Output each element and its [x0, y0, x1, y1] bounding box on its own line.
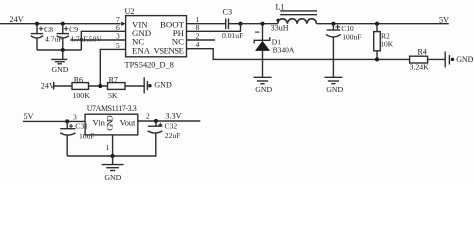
svg-text:GND: GND: [154, 81, 172, 90]
ground GND (D1): [254, 77, 273, 94]
regulator U7 AMS1117-3.3 box: [85, 104, 138, 135]
junction ENA node: [98, 84, 102, 88]
svg-text:B340A: B340A: [273, 45, 295, 54]
wire pin6 GND branch: [81, 31, 125, 50]
svg-text:GND: GND: [104, 173, 121, 182]
svg-text:GND: GND: [456, 55, 473, 64]
svg-text:GND: GND: [326, 85, 343, 94]
svg-text:33uH: 33uH: [271, 24, 289, 33]
op-amp U2 TPS5420 box: [125, 7, 187, 69]
svg-text:8: 8: [196, 23, 200, 32]
svg-text:1: 1: [106, 143, 110, 152]
svg-text:24V: 24V: [10, 15, 24, 24]
junction C8 tap: [35, 22, 39, 26]
svg-text:VSENSE: VSENSE: [154, 45, 185, 55]
svg-text:Vout: Vout: [120, 117, 136, 127]
junction C31: [65, 119, 69, 123]
capacitor C3: [222, 8, 243, 41]
svg-text:4: 4: [196, 40, 200, 49]
svg-text:3: 3: [116, 32, 120, 41]
svg-text:24V: 24V: [41, 81, 55, 90]
wire R4 to ground: [428, 58, 445, 60]
svg-text:C32: C32: [165, 122, 178, 131]
svg-text:3: 3: [73, 113, 77, 122]
wire ENA branch: [100, 49, 125, 86]
svg-text:3.3V: 3.3V: [165, 111, 181, 120]
svg-text:4.7uF: 4.7uF: [45, 34, 63, 43]
ground GND (C8/C9): [51, 50, 68, 74]
svg-text:TPS5420_D_8: TPS5420_D_8: [125, 60, 174, 69]
wire U7 GND pin: [112, 135, 114, 156]
wire C3 to switch node: [229, 23, 241, 25]
wire switch node to L1: [241, 23, 278, 25]
svg-text:100K: 100K: [73, 91, 91, 100]
capacitor C10: [326, 24, 361, 78]
wire U7 output: [138, 120, 201, 122]
junction bottom rail: [111, 154, 115, 158]
port 5V (AMS1117 input): [23, 112, 85, 121]
svg-text:6: 6: [116, 23, 120, 32]
junction R2: [375, 22, 379, 26]
ground GND (C10): [324, 77, 343, 94]
resistor R6: [72, 75, 90, 100]
svg-text:10uF: 10uF: [79, 131, 95, 140]
wire pin2 NC stub: [187, 39, 216, 41]
capacitor C9: [57, 24, 103, 50]
capacitor C31: [60, 121, 94, 156]
junction BOOT/PH: [238, 22, 242, 26]
wire VSENSE feedback: [187, 49, 410, 60]
ground GND (U7): [102, 156, 124, 182]
pin 7 arrow: [121, 22, 125, 26]
wire R6 to R7: [89, 85, 108, 87]
svg-text:4.7uF,50V: 4.7uF,50V: [70, 34, 102, 43]
svg-text:22uF: 22uF: [165, 131, 181, 140]
wire cap ground rail: [37, 49, 81, 51]
svg-text:ENA: ENA: [132, 45, 151, 55]
svg-text:R4: R4: [418, 48, 427, 57]
svg-text:5K: 5K: [108, 91, 118, 100]
svg-text:U2: U2: [125, 7, 135, 16]
junction cap rail: [61, 48, 65, 52]
svg-text:R6: R6: [74, 75, 83, 84]
resistor R7: [108, 75, 126, 100]
svg-text:5: 5: [116, 41, 120, 50]
svg-text:GND: GND: [255, 85, 272, 94]
svg-text:2: 2: [146, 111, 150, 120]
wire pin8 PH: [187, 24, 241, 32]
ground GND (R4 bar style): [445, 52, 473, 68]
svg-text:L1: L1: [276, 2, 285, 11]
svg-text:GND: GND: [104, 115, 114, 131]
svg-text:100uF: 100uF: [342, 32, 361, 41]
node 24V top rail: [0, 23, 121, 25]
wire pin3 NC stub: [71, 39, 126, 41]
svg-text:R7: R7: [109, 75, 118, 84]
inductor L1: [271, 2, 317, 32]
resistor R2: [374, 24, 394, 60]
svg-text:5V: 5V: [24, 112, 34, 121]
svg-text:C8: C8: [44, 25, 53, 34]
svg-text:U7AMS1117-3.3: U7AMS1117-3.3: [87, 104, 137, 113]
wire pin1 BOOT: [187, 23, 226, 25]
junction C32: [154, 119, 158, 123]
capacitor C8: [31, 24, 63, 50]
wire bottom rail: [67, 133, 156, 156]
svg-text:3.24K: 3.24K: [410, 63, 430, 72]
resistor R4: [410, 48, 430, 72]
svg-text:0.01uF: 0.01uF: [222, 31, 243, 40]
diode D1 B340A: [254, 24, 295, 78]
junction feedback/R2: [375, 57, 379, 61]
wire R7 to ground: [125, 85, 144, 87]
capacitor C32: [148, 121, 181, 140]
junction C10: [331, 22, 335, 26]
svg-text:C31: C31: [75, 122, 88, 131]
svg-text:C9: C9: [69, 25, 78, 34]
wire L1 to 5V: [317, 23, 449, 25]
svg-text:10K: 10K: [380, 40, 394, 49]
svg-text:C3: C3: [223, 8, 233, 17]
junction C9 tap: [61, 22, 65, 26]
svg-text:5V: 5V: [439, 16, 449, 25]
junction D1: [260, 22, 264, 26]
ground GND (R7 bar style): [144, 77, 172, 93]
svg-text:GND: GND: [52, 65, 69, 74]
port 24V (ENA divider): [41, 81, 72, 90]
